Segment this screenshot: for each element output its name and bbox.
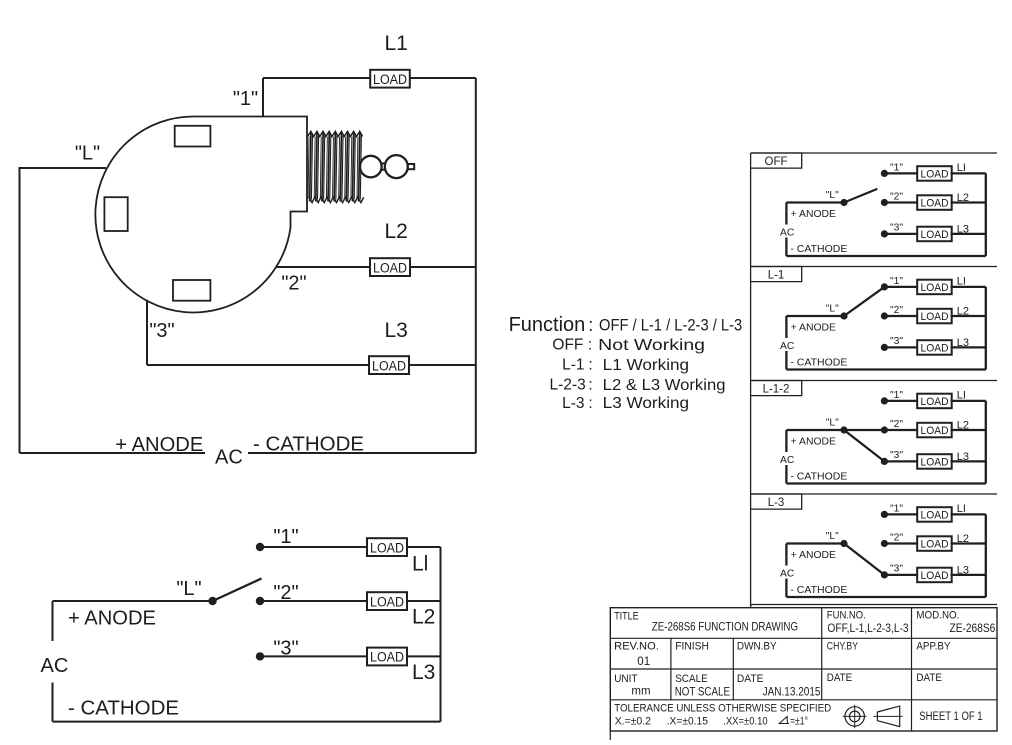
svg-text:APP.BY: APP.BY	[916, 641, 950, 653]
svg-text:LOAD: LOAD	[921, 425, 949, 437]
wire: LOAD1 to right bus (panel L-1)	[951, 286, 986, 288]
svg-text:"L": "L"	[75, 143, 100, 165]
svg-text:LOAD: LOAD	[921, 538, 949, 550]
load LOAD3 (L3)	[367, 648, 407, 666]
svg-text:+ ANODE: + ANODE	[791, 550, 836, 561]
svg-text:.XX=±0.10: .XX=±0.10	[723, 716, 768, 728]
svg-text::: :	[588, 395, 592, 412]
svg-text:"1": "1"	[890, 504, 903, 515]
load LOAD2 (panel L-3)	[917, 536, 952, 551]
wire: contact 3 to LOAD (panel L-3)	[884, 574, 917, 576]
svg-text:01: 01	[637, 656, 650, 668]
wire: left bus lower	[52, 683, 54, 722]
title block column lines	[821, 608, 823, 700]
switch S1 body (pull-chain rotary switch)	[95, 116, 307, 312]
switch arm (panel OFF)	[844, 189, 877, 203]
wire: contact 3 to LOAD (panel L-1)	[884, 346, 917, 348]
node "1" dot (panel OFF)	[881, 170, 888, 177]
wire: L feed (panel OFF)	[786, 201, 844, 203]
svg-text:ZE-268S6 FUNCTION DRAWING: ZE-268S6 FUNCTION DRAWING	[652, 619, 798, 633]
load LOAD3 (panel L-3)	[917, 568, 952, 583]
svg-text:AC: AC	[780, 455, 795, 466]
svg-text::: :	[588, 357, 592, 374]
pull chain link	[379, 163, 388, 169]
wire: left bus upper (panel OFF)	[785, 203, 787, 225]
node L dot (panel OFF)	[840, 199, 847, 206]
svg-text:"L": "L"	[826, 418, 839, 429]
wire: LOAD1 to right bus	[407, 546, 441, 548]
svg-text:REV.NO.: REV.NO.	[614, 641, 659, 653]
panel L-1-2 separator	[751, 380, 997, 382]
panel L-1-2 tab	[751, 381, 802, 396]
svg-text:LOAD: LOAD	[373, 261, 407, 276]
panel-to-table connector	[750, 605, 752, 608]
left frame tail	[609, 731, 611, 740]
wire: left bus lower (panel L-1)	[785, 351, 787, 370]
wire: LOAD3 to right bus (panel L-1)	[951, 346, 986, 348]
terminal lug (left, pin L)	[104, 197, 127, 231]
svg-text::: :	[588, 377, 592, 394]
wire: contact 1 to LOAD (panel L-1-2)	[884, 400, 917, 402]
svg-text:"2": "2"	[890, 533, 903, 544]
load LOAD2 (L2)	[367, 592, 407, 610]
node "2" dot (panel L-1-2)	[881, 426, 888, 433]
svg-text:"3": "3"	[149, 320, 174, 342]
load LOAD1 (panel OFF)	[917, 166, 952, 181]
svg-text:DWN.BY: DWN.BY	[737, 641, 777, 653]
wire: LOAD2 to right bus (panel L-1-2)	[951, 429, 986, 431]
switch arm (panel L-1-2)	[844, 429, 884, 431]
panel frame bottom separator	[751, 604, 997, 606]
svg-text:FUN.NO.: FUN.NO.	[827, 610, 866, 622]
node "3" dot (panel L-3)	[881, 571, 888, 578]
svg-text:=±1°: =±1°	[790, 716, 808, 728]
node "2" contact dot	[256, 597, 264, 605]
wire: right bus (panel L-1-2)	[985, 401, 987, 484]
svg-text:+ ANODE: + ANODE	[791, 322, 836, 333]
wire: LOAD1 to right bus (panel L-3)	[951, 513, 986, 515]
svg-text:"3": "3"	[890, 223, 903, 234]
wire: bottom bus (cathode side)	[248, 452, 476, 454]
wire: left bus lower (panel L-3)	[785, 579, 787, 598]
svg-text:LOAD: LOAD	[921, 509, 949, 521]
svg-text:L-2-3: L-2-3	[550, 377, 586, 394]
svg-text:"1": "1"	[233, 88, 258, 110]
svg-text:CHY.BY: CHY.BY	[827, 641, 858, 653]
load LOAD3 (panel L-1-2)	[917, 454, 952, 469]
wire: left bus upper (panel L-1)	[785, 316, 787, 338]
svg-text:L-1-2: L-1-2	[763, 384, 790, 396]
svg-text:"1": "1"	[890, 276, 903, 287]
svg-text:OFF: OFF	[552, 337, 583, 354]
svg-text:- CATHODE: - CATHODE	[790, 244, 847, 255]
terminal lug (bottom, pin 3)	[173, 280, 210, 301]
panel L-3 tab	[751, 494, 802, 509]
svg-text:LOAD: LOAD	[370, 594, 404, 609]
wire: contact 3 to LOAD (panel L-1-2)	[884, 460, 917, 462]
svg-text:AC: AC	[780, 341, 795, 352]
node "L" contact dot	[208, 597, 216, 605]
svg-text:AC: AC	[215, 447, 243, 469]
svg-text:"L": "L"	[826, 304, 839, 315]
svg-text:SCALE: SCALE	[675, 673, 708, 685]
svg-text:AC: AC	[780, 227, 795, 238]
wire: left bus upper	[52, 601, 54, 641]
node "3" dot (panel L-1)	[881, 344, 888, 351]
switch S1 arm (off position)	[213, 579, 262, 602]
svg-text:Not Working: Not Working	[598, 337, 705, 354]
wire: LOAD1 to right bus (panel L-1-2)	[951, 400, 986, 402]
svg-text:+ ANODE: + ANODE	[115, 434, 203, 456]
load LOAD2 (panel L-1)	[917, 309, 952, 324]
wire: L feed (panel L-3)	[786, 542, 844, 544]
load LOAD2 (panel L-1-2)	[917, 423, 952, 438]
svg-text::: :	[588, 315, 593, 335]
load LOAD1 (L1)	[370, 70, 410, 88]
wire: bottom bus (panel L-3)	[786, 596, 985, 598]
node L dot (panel L-1-2)	[840, 426, 847, 433]
svg-text:L1 Working: L1 Working	[603, 357, 689, 374]
projection symbol: target	[845, 707, 864, 726]
svg-text:MOD.NO.: MOD.NO.	[916, 610, 959, 622]
panel L-1 separator	[751, 266, 997, 268]
wire: contact 3 to LOAD3	[260, 655, 367, 657]
wire: contact 2 to LOAD (panel L-1-2)	[884, 429, 917, 431]
wire: LOAD2 to right bus	[407, 600, 441, 602]
svg-text:"3": "3"	[890, 450, 903, 461]
node "3" dot (panel OFF)	[881, 230, 888, 237]
svg-text:Ll: Ll	[412, 553, 428, 576]
svg-text:OFF,L-1,L-2-3,L-3: OFF,L-1,L-2-3,L-3	[827, 623, 908, 635]
svg-text:JAN.13.2015: JAN.13.2015	[763, 687, 821, 699]
svg-text:LOAD: LOAD	[372, 359, 406, 374]
svg-text:- CATHODE: - CATHODE	[68, 698, 179, 720]
svg-text:LOAD: LOAD	[370, 540, 404, 555]
svg-text:+ ANODE: + ANODE	[68, 608, 156, 630]
svg-text:mm: mm	[631, 685, 650, 697]
load LOAD2 (L2)	[370, 258, 410, 276]
svg-text:LOAD: LOAD	[921, 570, 949, 582]
svg-text:OFF / L-1 / L-2-3 / L-3: OFF / L-1 / L-2-3 / L-3	[599, 316, 742, 335]
load LOAD1 (Ll)	[367, 538, 407, 556]
wire: L3 branch	[147, 364, 476, 366]
svg-text:L3: L3	[385, 319, 408, 342]
svg-text:"3": "3"	[890, 336, 903, 347]
pull chain end tab	[408, 164, 415, 169]
wire: L feed (panel L-1)	[786, 315, 844, 317]
wire: left bus vertical	[19, 167, 21, 453]
svg-text:"2": "2"	[890, 419, 903, 430]
svg-text:LOAD: LOAD	[373, 72, 407, 87]
svg-text:"3": "3"	[890, 564, 903, 575]
node "1" dot (panel L-1)	[881, 283, 888, 290]
wire: LOAD3 to right bus (panel OFF)	[951, 233, 986, 235]
node "1" dot (panel L-3)	[881, 511, 888, 518]
wire: right bus (panel L-1)	[985, 287, 987, 370]
svg-text:SHEET 1 OF 1: SHEET 1 OF 1	[919, 711, 982, 723]
wire: contact 2 to LOAD (panel OFF)	[884, 201, 917, 203]
svg-text:L3: L3	[957, 337, 969, 349]
svg-text:AC: AC	[41, 655, 69, 677]
wire: left bus upper (panel L-3)	[785, 544, 787, 566]
node "1" contact dot	[256, 543, 264, 551]
wire: pin 3 drop	[146, 300, 148, 365]
svg-text:DATE: DATE	[737, 673, 764, 685]
svg-text:NOT SCALE: NOT SCALE	[675, 687, 731, 699]
svg-text:"L": "L"	[826, 531, 839, 542]
switch S1 threaded bushing	[308, 131, 364, 202]
svg-text:L1: L1	[385, 32, 408, 55]
wire: bottom bus (panel OFF)	[786, 255, 985, 257]
svg-text:TITLE: TITLE	[614, 610, 639, 622]
wire: bottom bus (panel L-1-2)	[786, 482, 985, 484]
panel OFF separator	[751, 152, 997, 154]
svg-text:- CATHODE: - CATHODE	[253, 434, 364, 456]
wire: LOAD2 to right bus (panel L-1)	[951, 315, 986, 317]
node "2" dot (panel L-1)	[881, 312, 888, 319]
svg-text:L3 Working: L3 Working	[603, 395, 689, 412]
svg-text:LI: LI	[957, 503, 966, 515]
wire: LOAD1 to right bus (panel OFF)	[951, 172, 986, 174]
panel L-3 separator	[751, 493, 997, 495]
svg-text:"L": "L"	[176, 578, 201, 600]
load LOAD1 (panel L-1-2)	[917, 394, 952, 409]
svg-text:L2: L2	[957, 192, 969, 204]
svg-text:Function: Function	[509, 314, 586, 336]
load LOAD3 (panel L-1)	[917, 340, 952, 355]
wire: left bus upper (panel L-1-2)	[785, 430, 787, 452]
wire: LOAD2 to right bus (panel OFF)	[951, 201, 986, 203]
panel frame left border	[750, 153, 752, 608]
svg-text:- CATHODE: - CATHODE	[790, 358, 847, 369]
svg-text:LI: LI	[957, 390, 966, 402]
node "1" dot (panel L-1-2)	[881, 397, 888, 404]
svg-text:L-1: L-1	[562, 357, 584, 374]
wire: contact 2 to LOAD2	[260, 600, 367, 602]
svg-text:- CATHODE: - CATHODE	[790, 585, 847, 596]
svg-text:L3: L3	[957, 565, 969, 577]
wire: L feed	[53, 600, 213, 602]
projection symbol: cone	[877, 706, 899, 727]
svg-text:"2": "2"	[890, 192, 903, 203]
wire: right bus vertical	[475, 78, 477, 453]
svg-text:"1": "1"	[890, 163, 903, 174]
svg-text:FINISH: FINISH	[675, 641, 709, 653]
svg-text:"2": "2"	[890, 305, 903, 316]
wire: contact 2 to LOAD (panel L-1)	[884, 315, 917, 317]
svg-text::: :	[588, 337, 592, 354]
wire: pin 1 riser	[262, 78, 264, 117]
svg-text:ZE-268S6: ZE-268S6	[950, 623, 996, 635]
svg-text:LOAD: LOAD	[921, 168, 949, 180]
svg-text:AC: AC	[780, 568, 795, 579]
wire: left bus lower (panel L-1-2)	[785, 465, 787, 484]
svg-text:L-3: L-3	[768, 497, 785, 509]
panel OFF tab	[751, 153, 802, 168]
svg-text:TOLERANCE UNLESS OTHERWISE SPE: TOLERANCE UNLESS OTHERWISE SPECIFIED	[614, 702, 831, 714]
svg-text:L3: L3	[957, 451, 969, 463]
terminal lug (top, pin 1)	[175, 126, 211, 147]
svg-text:L2: L2	[957, 305, 969, 317]
wire: bottom bus	[53, 721, 441, 723]
node "3" dot (panel L-1-2)	[881, 458, 888, 465]
panel L-1 tab	[751, 267, 802, 282]
wire: right bus vertical	[440, 547, 442, 722]
svg-text:LI: LI	[957, 162, 966, 174]
wire: left bus lower (panel OFF)	[785, 238, 787, 257]
svg-text:.X=±0.15: .X=±0.15	[667, 716, 708, 728]
svg-text:LOAD: LOAD	[921, 229, 949, 241]
svg-text:"1": "1"	[890, 390, 903, 401]
title block outer frame	[610, 608, 997, 731]
svg-text:X.=±0.2: X.=±0.2	[615, 716, 651, 728]
svg-text:LOAD: LOAD	[921, 311, 949, 323]
load LOAD1 (panel L-3)	[917, 507, 952, 522]
svg-text:+ ANODE: + ANODE	[791, 209, 836, 220]
wire: terminal L to left bus	[20, 167, 107, 169]
load LOAD3 (L3)	[369, 356, 409, 374]
node "3" contact dot	[256, 652, 264, 660]
svg-text:L2: L2	[412, 606, 435, 629]
svg-text:+ ANODE: + ANODE	[791, 436, 836, 447]
svg-text:LOAD: LOAD	[921, 396, 949, 408]
wire: right bus (panel L-3)	[985, 514, 987, 597]
svg-text:L-1: L-1	[768, 270, 785, 282]
wire: right bus (panel OFF)	[985, 173, 987, 256]
angle tolerance symbol	[779, 717, 789, 724]
wire: contact 1 to LOAD (panel OFF)	[884, 172, 917, 174]
wire: contact 1 to LOAD (panel L-1)	[884, 286, 917, 288]
svg-text:L3: L3	[412, 661, 435, 684]
svg-text:DATE: DATE	[827, 672, 852, 684]
svg-text:- CATHODE: - CATHODE	[790, 472, 847, 483]
svg-text:"2": "2"	[281, 273, 306, 295]
switch arm (panel L-1)	[844, 287, 884, 316]
svg-text:L2 & L3 Working: L2 & L3 Working	[603, 377, 726, 394]
wire: contact 1 to LOAD (panel L-3)	[884, 513, 917, 515]
svg-text:LOAD: LOAD	[921, 456, 949, 468]
wire: LOAD3 to right bus	[407, 655, 441, 657]
node L dot (panel L-1)	[840, 312, 847, 319]
svg-text:LI: LI	[957, 276, 966, 288]
wire: L2 branch	[276, 266, 476, 268]
svg-text:DATE: DATE	[916, 672, 942, 684]
svg-text:L3: L3	[957, 224, 969, 236]
svg-text:LOAD: LOAD	[921, 197, 949, 209]
load LOAD1 (panel L-1)	[917, 280, 952, 295]
svg-text:"L": "L"	[826, 190, 839, 201]
pull chain bead 2	[385, 155, 408, 178]
load LOAD2 (panel OFF)	[917, 195, 952, 210]
node "2" dot (panel L-3)	[881, 540, 888, 547]
svg-text:L2: L2	[385, 220, 408, 243]
svg-text:LOAD: LOAD	[921, 342, 949, 354]
title block row lines	[610, 637, 997, 639]
switch arm (panel L-3)	[844, 544, 884, 575]
svg-text:UNIT: UNIT	[614, 673, 638, 685]
wire: contact 2 to LOAD (panel L-3)	[884, 542, 917, 544]
wire: contact 3 to LOAD (panel OFF)	[884, 233, 917, 235]
wire: LOAD2 to right bus (panel L-3)	[951, 542, 986, 544]
svg-text:L-3: L-3	[562, 395, 584, 412]
wire: bottom bus (panel L-1)	[786, 368, 985, 370]
node "2" dot (panel OFF)	[881, 199, 888, 206]
node L dot (panel L-3)	[840, 540, 847, 547]
svg-text:LOAD: LOAD	[921, 282, 949, 294]
wire: LOAD3 to right bus (panel L-3)	[951, 574, 986, 576]
load LOAD3 (panel OFF)	[917, 227, 952, 242]
wire: contact 1 to LOAD1	[260, 546, 367, 548]
svg-text:L2: L2	[957, 533, 969, 545]
pull chain bead 1	[360, 156, 382, 178]
svg-text:L2: L2	[957, 419, 969, 431]
svg-text:OFF: OFF	[765, 156, 788, 168]
wire: L1 branch top	[263, 77, 476, 79]
wire: bottom bus (anode side)	[20, 452, 206, 454]
wire: LOAD3 to right bus (panel L-1-2)	[951, 460, 986, 462]
wire: L feed (panel L-1-2)	[786, 429, 844, 431]
svg-text:LOAD: LOAD	[370, 650, 404, 665]
svg-text:"1": "1"	[273, 526, 298, 548]
